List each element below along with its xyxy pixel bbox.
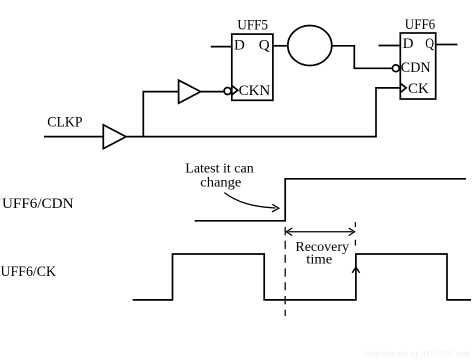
wire B2 output to UFF5 clock bubble	[201, 91, 225, 93]
wire clock to UFF6 CK	[376, 88, 400, 137]
bubble UFF6 CDN	[392, 65, 399, 72]
clock wedge UFF6	[400, 83, 406, 92]
curved annotation arrow	[224, 193, 275, 208]
svg-text:blog.csdn.net qq_41754350 csdn: blog.csdn.net qq_41754350 csdn	[365, 349, 470, 358]
svg-text:UFF6/CK: UFF6/CK	[1, 264, 57, 280]
left arrowhead of recovery arrow	[286, 228, 292, 236]
wire UFF6 D stub	[379, 45, 401, 47]
dashed line at CK rising edge (lower dash)	[354, 240, 356, 246]
svg-text:CKN: CKN	[239, 83, 271, 99]
right arrowhead of recovery arrow	[349, 228, 355, 236]
svg-text:UFF6/CDN: UFF6/CDN	[2, 196, 74, 212]
wire UFF5 Q to delay ellipse	[273, 45, 288, 47]
buffer B1	[103, 125, 126, 149]
svg-text:CK: CK	[408, 81, 429, 97]
wire branch to buffer B2	[143, 92, 178, 137]
waveform UFF6/CK	[133, 254, 471, 300]
buffer B2	[179, 80, 201, 103]
svg-text:UFF5: UFF5	[237, 17, 268, 33]
waveform UFF6/CDN	[195, 179, 466, 221]
svg-text:UFF6: UFF6	[405, 17, 435, 33]
bubble UFF5 CKN	[224, 88, 231, 95]
svg-text:D: D	[403, 36, 414, 52]
arrowhead of curved arrow	[272, 204, 279, 212]
svg-text:Q: Q	[259, 37, 270, 53]
recovery time dimension arrow	[289, 231, 353, 233]
svg-text:CLKP: CLKP	[47, 115, 82, 131]
svg-text:CDN: CDN	[401, 60, 431, 76]
svg-text:Q: Q	[425, 36, 434, 52]
clock wedge UFF5	[232, 86, 238, 95]
wire UFF5 D stub	[211, 46, 232, 48]
dashed line at CDN rising edge	[284, 227, 286, 316]
svg-text:time: time	[306, 253, 332, 268]
wire clock main	[126, 136, 377, 138]
dashed line at CK rising edge	[354, 222, 356, 227]
flip-flop UFF5 box	[232, 34, 273, 100]
svg-text:change: change	[200, 175, 241, 190]
svg-text:D: D	[234, 37, 245, 53]
wire CLKP input	[44, 136, 103, 138]
wire ellipse to UFF6 CDN	[332, 46, 392, 69]
arrowhead on CK rising edge	[352, 267, 359, 273]
delay element ellipse	[288, 26, 332, 66]
flip-flop UFF6 box	[400, 33, 435, 99]
wire UFF6 Q stub	[436, 44, 458, 46]
